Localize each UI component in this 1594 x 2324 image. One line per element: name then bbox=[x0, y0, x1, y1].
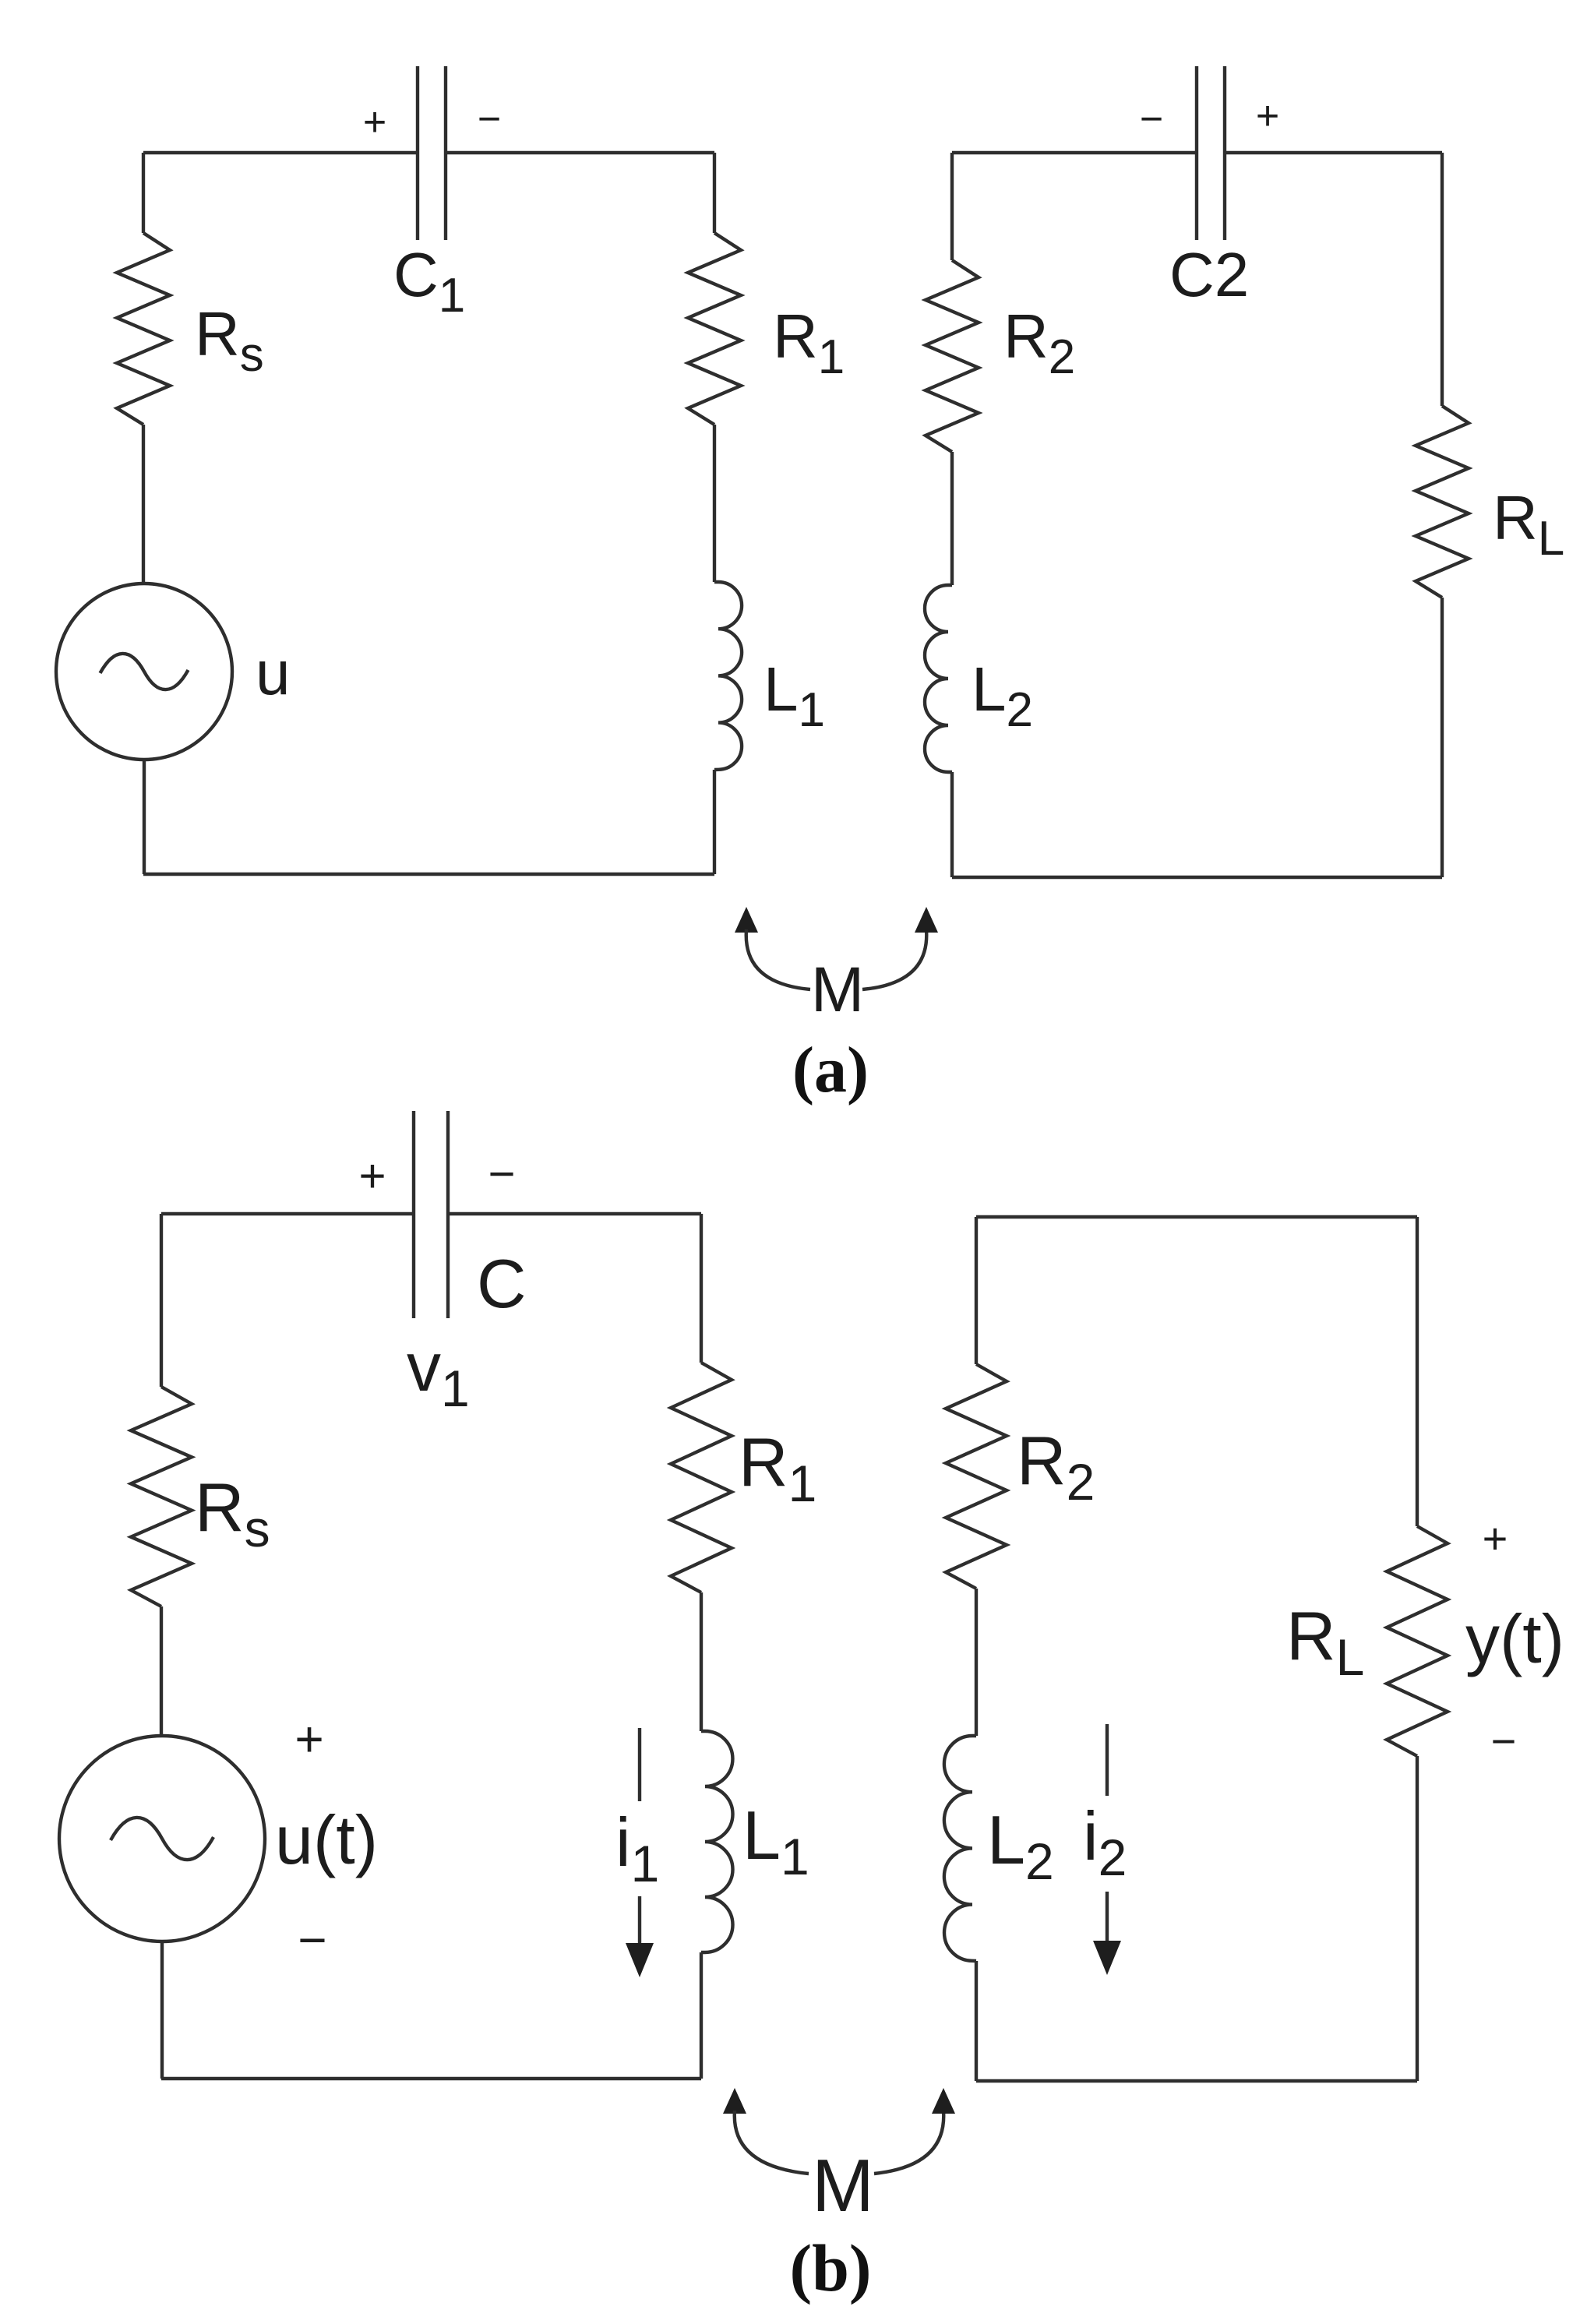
resistor RL bbox=[1416, 406, 1469, 598]
resistor Rs (b) bbox=[131, 1387, 192, 1606]
current i1 arrow bbox=[638, 1896, 641, 1948]
arrowhead M-left (b) bbox=[723, 2088, 746, 2114]
wire L1 to bottom (b) bbox=[700, 1952, 703, 2079]
current i2 arrow bar bbox=[1106, 1724, 1109, 1796]
svg-text:y(t): y(t) bbox=[1465, 1600, 1564, 1677]
capacitor C1 bbox=[416, 66, 419, 240]
wire C2 to RL branch bbox=[1225, 151, 1442, 154]
svg-text:(b): (b) bbox=[789, 2231, 871, 2305]
wire b loop2 top bbox=[976, 1215, 1417, 1218]
svg-text:u(t): u(t) bbox=[275, 1801, 378, 1878]
wire a R2 top bbox=[950, 153, 954, 260]
svg-text:C: C bbox=[477, 1245, 527, 1322]
wire b RL top bbox=[1416, 1217, 1419, 1526]
inductor L1 (b) bbox=[701, 1731, 733, 1952]
current i2 arrow bbox=[1106, 1892, 1109, 1944]
wire R2 to L2 (b) bbox=[975, 1589, 978, 1736]
svg-text:+: + bbox=[358, 1150, 386, 1202]
wire R2 to L2 bbox=[950, 452, 954, 585]
inductor L2 (b) bbox=[944, 1736, 976, 1961]
wire b loop2 bottom bbox=[976, 2079, 1417, 2082]
wire a loop2 bottom bbox=[952, 876, 1442, 879]
wire b R1 top bbox=[700, 1214, 703, 1363]
wire a top-left to C1 bbox=[143, 151, 418, 154]
svg-text:M: M bbox=[812, 2144, 874, 2227]
wire source u(t) to bottom bbox=[160, 1941, 164, 2079]
wire RL to bottom (b) bbox=[1416, 1756, 1419, 2081]
AC source u bbox=[56, 584, 232, 760]
svg-text:+: + bbox=[363, 100, 386, 145]
inductor L1 bbox=[714, 582, 742, 770]
wire a RL top bbox=[1441, 153, 1444, 406]
svg-text:−: − bbox=[1140, 97, 1163, 142]
AC source u(t) bbox=[59, 1736, 265, 1941]
wire C1 to R1 branch bbox=[446, 151, 714, 154]
arrowhead M-right (b) bbox=[932, 2088, 955, 2114]
wire Rs to source u(t) bbox=[160, 1606, 163, 1736]
arc M-left (a) bbox=[746, 929, 810, 989]
svg-text:−: − bbox=[488, 1148, 515, 1200]
resistor R2 (b) bbox=[946, 1364, 1007, 1589]
arc M-right (a) bbox=[862, 929, 926, 989]
wire a loop2 top-left to C2 bbox=[952, 151, 1197, 154]
resistor RL (b) bbox=[1387, 1526, 1448, 1756]
arrowhead M-right (a) bbox=[915, 907, 938, 933]
wire Rs to source u bbox=[142, 425, 145, 584]
resistor R2 bbox=[926, 260, 979, 452]
wire a R1 top bbox=[713, 153, 716, 233]
wire a loop1 bottom bbox=[143, 873, 714, 876]
wire L2 to bottom (b) bbox=[975, 1961, 978, 2081]
wire RL to bottom bbox=[1441, 598, 1444, 877]
arrowhead M-left (a) bbox=[735, 907, 758, 933]
svg-text:+: + bbox=[1256, 93, 1279, 139]
wire b loop1 bottom bbox=[161, 2077, 701, 2080]
wire b top-left to C bbox=[161, 1212, 414, 1215]
resistor R1 (b) bbox=[671, 1363, 732, 1592]
svg-text:(a): (a) bbox=[792, 1034, 869, 1106]
wire L2 to bottom bbox=[950, 772, 954, 877]
svg-text:−: − bbox=[478, 97, 501, 142]
arc M-left (b) bbox=[735, 2111, 809, 2174]
resistor Rs bbox=[117, 233, 170, 425]
wire a left top bbox=[142, 153, 145, 233]
wire L1 to bottom bbox=[713, 770, 716, 874]
wire R1 to L1 bbox=[713, 425, 716, 582]
wire C to R1 branch (b) bbox=[448, 1212, 701, 1215]
wire b left top bbox=[160, 1214, 163, 1387]
svg-text:+: + bbox=[294, 1711, 323, 1767]
svg-text:−: − bbox=[298, 1912, 326, 1968]
capacitor C bbox=[412, 1111, 415, 1318]
svg-text:+: + bbox=[1483, 1514, 1508, 1563]
wire b R2 top bbox=[975, 1217, 978, 1364]
wire R1 to L1 (b) bbox=[700, 1592, 703, 1731]
svg-text:u: u bbox=[256, 638, 291, 707]
svg-text:−: − bbox=[1491, 1716, 1517, 1765]
svg-text:C2: C2 bbox=[1169, 240, 1249, 309]
inductor L2 bbox=[925, 585, 952, 772]
capacitor C2 bbox=[1195, 66, 1198, 240]
wire source u to bottom bbox=[143, 760, 146, 874]
current i1 arrow bar bbox=[638, 1728, 641, 1801]
arc M-right (b) bbox=[874, 2111, 943, 2174]
svg-text:M: M bbox=[811, 954, 864, 1025]
resistor R1 bbox=[688, 233, 741, 425]
